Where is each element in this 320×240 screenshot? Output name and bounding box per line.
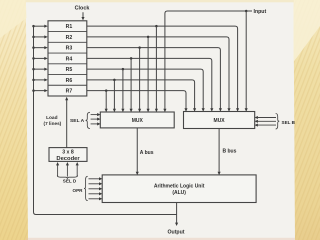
- SEL B brace: [276, 114, 280, 130]
- OPR wire y=193.8: [89, 193, 100, 195]
- SEL B wire y=121.3: [258, 120, 276, 122]
- register R2 output wire: [87, 37, 229, 109]
- wire R1 to MUX A: [155, 26, 157, 109]
- node on bus row R6: [32, 79, 35, 82]
- SEL A wire y=114.6: [91, 114, 98, 116]
- input junction node: [245, 10, 248, 13]
- SEL B wire y=117.5: [258, 117, 276, 119]
- register separator 2: [48, 41, 87, 43]
- svg-text:A bus: A bus: [140, 150, 154, 156]
- node on bus row R5: [32, 68, 35, 71]
- node on bus row R1: [32, 25, 35, 28]
- svg-text:R6: R6: [66, 78, 73, 84]
- node R2 tap: [147, 36, 150, 39]
- node on bus row R2: [32, 36, 35, 39]
- node on bus row R3: [32, 46, 35, 49]
- wire bus to register R4: [34, 57, 45, 59]
- wire R5 to MUX A: [122, 69, 124, 109]
- svg-text:(ALU): (ALU): [172, 190, 186, 196]
- register file box R1-R7: [48, 21, 87, 96]
- svg-text:(7 lines): (7 lines): [44, 121, 62, 126]
- register R5 output wire: [87, 69, 203, 108]
- OPR wire y=183.8: [89, 183, 100, 185]
- OPR wire y=198.8: [89, 198, 100, 200]
- SEL D bracket: [57, 175, 77, 179]
- svg-text:Decoder: Decoder: [56, 156, 80, 162]
- mux A box: [100, 112, 174, 128]
- node R1 tap: [155, 25, 158, 28]
- svg-text:B bus: B bus: [223, 148, 237, 154]
- svg-text:SEL D: SEL D: [63, 179, 77, 184]
- wire R4 to MUX A: [130, 58, 132, 109]
- wire bus to register R5: [34, 68, 45, 70]
- wire bus to register R3: [34, 47, 45, 49]
- wire R2 to MUX A: [147, 37, 149, 109]
- svg-text:Output: Output: [168, 230, 185, 236]
- svg-text:3 x 8: 3 x 8: [62, 150, 74, 156]
- svg-text:MUX: MUX: [214, 118, 226, 124]
- wire bus to register R1: [34, 25, 45, 27]
- register R3 output wire: [87, 48, 221, 109]
- SEL D wire x=67.4: [66, 165, 68, 177]
- node on bus row R4: [32, 57, 35, 60]
- node R3 tap: [138, 46, 141, 49]
- pale corner highlight top-left: [0, 0, 27, 38]
- OPR brace: [84, 176, 88, 200]
- OPR wire y=178.8: [89, 178, 100, 180]
- feedback bus wire (output to registers): [34, 26, 177, 214]
- svg-text:SEL B: SEL B: [282, 120, 296, 125]
- clock wire: [82, 12, 84, 17]
- ALU box: [102, 175, 256, 203]
- SEL A wire y=123.9: [91, 123, 98, 125]
- SEL A wire y=119.1: [91, 118, 98, 120]
- svg-text:R5: R5: [66, 67, 73, 73]
- node R7 tap: [105, 89, 108, 92]
- svg-text:Arithmetic Logic Unit: Arithmetic Logic Unit: [154, 184, 205, 190]
- bottom pink edge strip: [26, 238, 295, 240]
- load wire decoder to registers: [66, 100, 68, 148]
- input drop wire to MUX B: [245, 11, 247, 109]
- register R4 output wire: [87, 58, 212, 108]
- register separator 5: [48, 74, 87, 76]
- wire R6 to MUX A: [113, 80, 115, 109]
- wire R7 to MUX A: [105, 91, 107, 109]
- left gold striped band: [0, 0, 28, 240]
- register R7 output wire: [87, 91, 186, 109]
- SEL B wire y=125.1: [258, 124, 276, 126]
- decoder 3x8 box: [49, 148, 87, 162]
- wire bus to register R6: [34, 79, 45, 81]
- wire R3 to MUX A: [139, 48, 141, 109]
- node on bus row R7: [32, 89, 35, 92]
- svg-text:R1: R1: [66, 24, 73, 30]
- node R4 tap: [130, 57, 133, 60]
- output wire: [176, 203, 178, 224]
- A bus wire: [136, 128, 138, 172]
- SEL D wire x=77.2: [76, 165, 78, 177]
- B bus wire: [218, 129, 220, 172]
- right gold striped band: [294, 0, 320, 240]
- svg-text:OPR: OPR: [73, 188, 84, 193]
- wire bus to register R7: [34, 90, 45, 92]
- SEL A brace: [86, 112, 90, 128]
- svg-text:R4: R4: [66, 56, 73, 62]
- svg-text:R3: R3: [66, 46, 73, 52]
- register separator 1: [48, 31, 87, 33]
- register separator 6: [48, 84, 87, 86]
- node R5 tap: [122, 68, 125, 71]
- register R6 output wire: [87, 80, 195, 109]
- OPR wire y=188.8: [89, 188, 100, 190]
- svg-text:Clock: Clock: [75, 5, 90, 11]
- wire bus to register R2: [34, 36, 45, 38]
- register separator 4: [48, 63, 87, 65]
- top cream edge strip: [26, 0, 294, 2]
- svg-text:R2: R2: [66, 35, 73, 41]
- register R1 output wire: [87, 26, 238, 108]
- svg-text:R7: R7: [66, 89, 73, 95]
- svg-text:MUX: MUX: [132, 118, 144, 124]
- input wire horizontal: [165, 11, 252, 109]
- svg-text:Input: Input: [254, 9, 267, 15]
- pale corner highlight top-right: [294, 0, 320, 62]
- mux B box: [184, 112, 255, 129]
- svg-text:SEL A: SEL A: [70, 118, 85, 124]
- SEL D wire x=57.6: [57, 165, 59, 177]
- register separator 3: [48, 52, 87, 54]
- node R6 tap: [113, 79, 116, 82]
